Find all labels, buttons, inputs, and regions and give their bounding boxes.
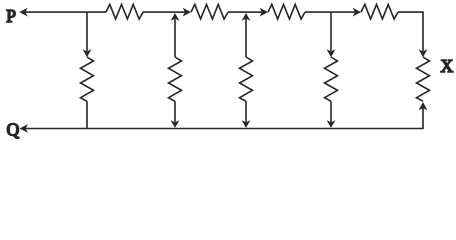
arrow right on top wire before R4 (353, 8, 361, 17)
branch 1: arrow down above resistor (83, 49, 92, 57)
wire R2 to node C (228, 11, 246, 13)
resistor shunt 2 (branch 2) (169, 57, 182, 101)
branch 3: wire to bottom rail (245, 101, 247, 122)
resistor R3 (series, top) (268, 4, 305, 19)
resistor X (right branch) (417, 57, 430, 101)
arrow right on top wire before R2 (183, 8, 191, 17)
node P label (6, 6, 16, 26)
wire node C to R3 (246, 11, 262, 13)
svg-text:Q: Q (7, 120, 20, 140)
branch 5: arrow down above resistor X (419, 49, 428, 57)
branch 2: arrow up at top wire (171, 13, 180, 21)
node Q label (7, 120, 20, 140)
wire R4 to top-right corner (398, 12, 423, 51)
wire node B to R2 (175, 11, 185, 13)
resistor R1 (series, top) (106, 4, 143, 19)
branch 2: wire to bottom rail (174, 101, 176, 122)
wire bottom rail Q (25, 128, 398, 130)
branch 4: arrow down above resistor (327, 49, 336, 57)
wire node A to R1 (87, 11, 106, 13)
branch 2: arrow down at bottom rail (171, 120, 180, 128)
resistor shunt 1 (branch 1) (81, 57, 94, 101)
resistor X value label (441, 56, 454, 76)
branch 1: wire node A down (86, 12, 88, 51)
branch 5: wire down to bottom-right corner (398, 108, 423, 129)
resistor shunt 4 (branch 4) (325, 57, 338, 101)
branch 3: arrow up at top wire (242, 13, 251, 21)
wire top P to node A (25, 11, 87, 13)
wire node D to R4 (331, 11, 355, 13)
resistor R4 (series, top) (361, 4, 398, 19)
svg-text:X: X (441, 56, 454, 76)
branch 4: wire node D down (330, 12, 332, 51)
branch 5: arrow up below resistor X (419, 102, 428, 110)
wire R1 to node B (143, 11, 175, 13)
branch 3: wire node C down (245, 19, 247, 57)
branch 3: arrow down at bottom rail (242, 120, 251, 128)
resistor R2 (series, top) (191, 4, 228, 19)
branch 4: wire to bottom rail (330, 101, 332, 122)
branch 1: wire to bottom rail (86, 101, 88, 128)
arrow right on top wire before R3 (260, 8, 268, 17)
svg-text:P: P (6, 6, 16, 26)
arrow left on bottom wire at Q (20, 124, 28, 133)
wire R3 to node D (305, 11, 331, 13)
resistor shunt 3 (branch 3) (240, 57, 253, 101)
arrow left on top wire at P (19, 8, 27, 17)
branch 2: wire node B down (174, 19, 176, 57)
branch 4: arrow down at bottom rail (327, 120, 336, 128)
